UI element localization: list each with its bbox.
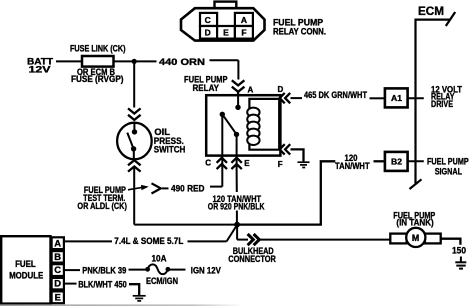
fuel module pin D [52,278,64,290]
wire bulkhead to fuel pump [260,239,391,241]
svg-text:A1: A1 [391,93,402,103]
fuel pump relay box [206,95,280,155]
ground at relay pin F [298,162,310,167]
wire splice to B2 (120 TAN/WHT) [237,161,385,224]
fuel module box [1,236,50,303]
junction node splice [234,222,240,228]
svg-text:FUSE LINK (CK): FUSE LINK (CK) [70,43,126,53]
label FUEL PUMP SIGNAL [427,157,469,177]
wire splice to bulkhead connector [237,225,248,240]
svg-text:E: E [244,159,250,168]
svg-text:FUEL PUMP: FUEL PUMP [427,157,469,167]
label 120 TAN/WHT OR 920 PNK/BLK [208,194,265,212]
svg-text:OR 920 PNK/BLK: OR 920 PNK/BLK [208,202,265,212]
svg-text:IGN 12V: IGN 12V [191,265,222,275]
svg-text:12V: 12V [29,64,52,74]
wire B2 to ECM line [408,160,424,162]
junction node 440 ORN [132,59,137,64]
label BULKHEAD CONNECTOR [228,246,276,264]
svg-text:M: M [412,233,419,243]
svg-text:A: A [241,15,247,25]
svg-text:SIGNAL: SIGNAL [435,166,463,176]
label FUEL PUMP RELAY CONN. [273,17,326,36]
svg-text:150: 150 [452,246,466,256]
svg-text:FUEL: FUEL [15,259,36,269]
svg-text:B2: B2 [391,157,402,167]
svg-text:FUSE (RVGP): FUSE (RVGP) [71,74,124,84]
svg-text:F: F [241,27,246,37]
svg-text:OR ALDL (CK): OR ALDL (CK) [77,201,127,211]
label 120 TAN/WHT [335,153,370,171]
label OR ECM B FUSE (RVGP) [71,67,124,84]
svg-text:A: A [54,237,61,248]
relay coil frame [249,99,279,150]
wire oil pressure switch to splice [134,167,237,225]
svg-text:TAN/WHT: TAN/WHT [335,161,370,171]
fuel pump motor M1 [390,228,440,247]
oil pressure switch [117,123,152,160]
svg-text:10A: 10A [152,253,167,263]
svg-text:ECM/IGN: ECM/IGN [146,276,178,286]
label 12 VOLT RELAY DRIVE [431,85,462,109]
svg-text:DRIVE: DRIVE [431,99,453,109]
ground 150 [455,257,466,269]
bulkhead connector chevron [248,234,260,245]
connector chevrons at relay pin A [232,80,245,96]
svg-text:SWITCH: SWITCH [154,145,186,155]
connector chevron at relay pin F [280,144,291,154]
svg-text:C: C [205,158,211,167]
svg-text:C: C [205,15,211,25]
svg-text:ECM: ECM [418,4,444,18]
label FUEL PUMP (IN TANK) [393,210,435,227]
fuel pump relay connector (top) [181,2,265,41]
wire junction to oil pressure switch [133,61,135,107]
wire fuse to IGN 12V [170,269,186,271]
ECM bracket [410,12,456,189]
wire 465 DK GRN/WHT [291,97,385,99]
svg-text:490 RED: 490 RED [171,183,205,193]
svg-text:A: A [248,86,254,95]
arrow to test terminal [128,185,149,190]
oil pressure switch connector chevrons top [128,108,141,120]
wire pin F to ground [291,149,304,161]
fuel module pin C [52,264,64,276]
connector chevron at relay pin D [280,93,291,103]
relay coil [247,108,259,145]
svg-text:E: E [223,27,229,37]
connector chevron at relay pin C [217,158,227,169]
svg-text:MODULE: MODULE [9,270,43,280]
wire fuse link to junction [114,60,137,62]
svg-text:D: D [54,278,61,289]
connector chevron at relay pin E [231,158,241,169]
wire fuel pump to ground 150 [441,239,461,245]
fuel module pin E [52,291,64,303]
wire pin C to 490 RED [162,169,222,188]
svg-text:D: D [205,27,211,37]
svg-text:RELAY: RELAY [193,83,220,93]
label FUEL PUMP TEST TERM. OR ALDL (CK) [77,185,127,211]
relay switch contacts [220,96,241,169]
svg-text:E: E [55,291,61,302]
wire to ground ECM/IGN [129,284,139,295]
label OIL PRESS. SWITCH [154,127,186,154]
label FUEL MODULE [9,259,43,280]
label FUEL PUMP RELAY [184,74,228,93]
wire to fuse 10A [129,269,147,271]
svg-text:C: C [54,264,61,275]
svg-text:440 ORN: 440 ORN [159,57,205,67]
fuse 10A [145,264,170,274]
svg-text:BLK/WHT 450: BLK/WHT 450 [78,280,127,290]
wire pin D BLK/WHT [65,283,77,285]
svg-text:7.4L & SOME 5.7L: 7.4L & SOME 5.7L [114,236,183,246]
wire 440 ORN to relay pin A [136,60,238,79]
fuel pump test terminal [152,183,161,193]
wire A1 to ECM line [408,97,424,99]
wire BATT to fuse link [56,60,82,62]
svg-text:(IN TANK): (IN TANK) [396,218,433,228]
wire fuel module pin A 7.4L [65,240,227,242]
fuel module pin A [52,237,64,249]
fuse link F1 [82,56,114,67]
svg-text:465 DK GRN/WHT: 465 DK GRN/WHT [304,90,367,100]
ground ECM/IGN [133,296,146,301]
svg-text:D: D [278,85,284,94]
wire diagonal splice to 7.4L [227,225,237,241]
wire pin E to splice (120 TAN/WHT) [236,169,238,223]
fuel module pin B [52,251,64,263]
svg-text:PNK/BLK 39: PNK/BLK 39 [82,265,126,275]
label BATT 12V [27,56,53,74]
oil pressure switch connector chevrons bottom [128,160,141,171]
ECM terminal B2 [385,152,408,171]
wire pin C PNK/BLK [65,269,81,271]
svg-text:B: B [54,251,61,262]
svg-text:RELAY CONN.: RELAY CONN. [273,26,326,36]
ECM terminal A1 [385,88,408,107]
svg-text:CONNECTOR: CONNECTOR [228,254,276,264]
svg-text:F: F [278,160,283,169]
